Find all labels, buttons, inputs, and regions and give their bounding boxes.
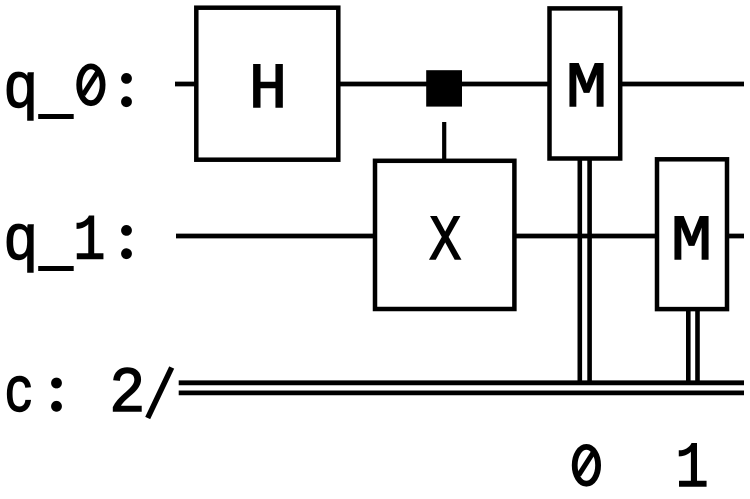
svg-text:M: M <box>671 206 712 278</box>
wire double vertical from M1 to classical <box>580 158 590 384</box>
control square (CX control on q_0) <box>426 70 462 106</box>
svg-text:X: X <box>429 206 461 278</box>
node q_0 label <box>3 54 132 126</box>
svg-text:q: q <box>3 206 38 278</box>
wire double vertical from M2 to classical <box>688 308 697 384</box>
svg-text:H: H <box>249 55 288 127</box>
gate X (CX target on q_1) <box>375 161 514 309</box>
wire q_1 <box>176 234 744 239</box>
wire control vertical <box>442 122 446 160</box>
gate H (on q_0) <box>196 8 338 160</box>
svg-text:c: c <box>4 360 34 431</box>
wire q_0 <box>175 82 744 87</box>
node q_1 label <box>3 206 132 279</box>
node c label <box>4 359 172 431</box>
svg-text:q: q <box>3 54 38 126</box>
gate M1 (measure q_0) <box>550 8 621 158</box>
wire classical double line <box>179 383 744 393</box>
svg-text:1: 1 <box>73 206 105 278</box>
svg-text:1: 1 <box>675 433 708 494</box>
gate M2 (measure q_1) <box>657 159 727 309</box>
svg-text:2: 2 <box>109 359 145 431</box>
node label clbit 0 <box>575 447 598 484</box>
svg-text:M: M <box>566 53 607 125</box>
